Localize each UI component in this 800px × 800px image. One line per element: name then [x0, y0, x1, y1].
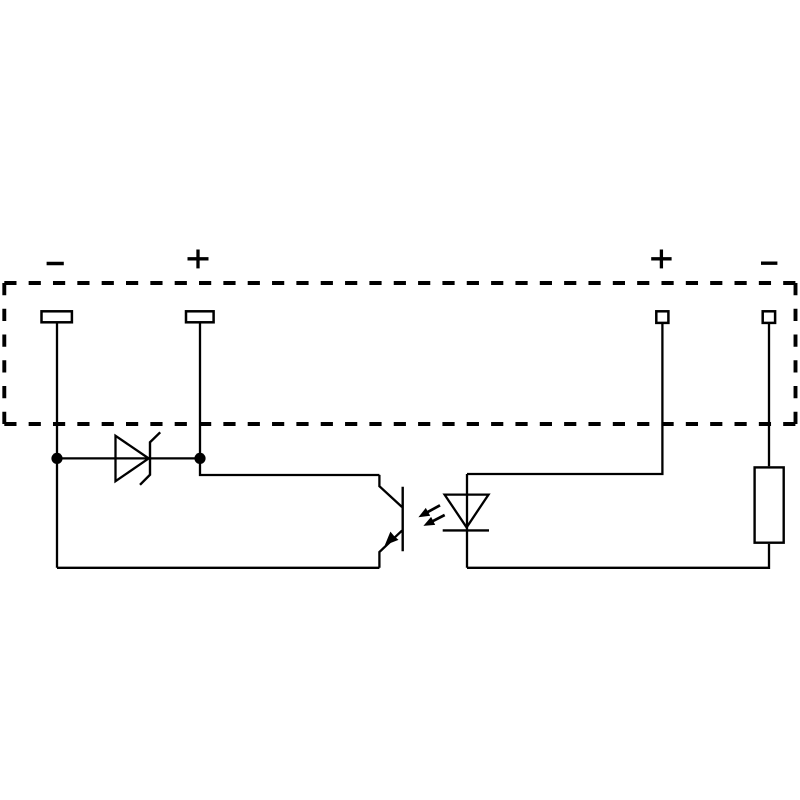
phototransistor Q1 base bar [402, 487, 404, 552]
terminal 2 (left plus, wide clamp) [186, 311, 214, 322]
wire: node A to node B through zener [57, 457, 200, 459]
relay module dashed outline right edge [794, 283, 798, 424]
light arrow 1 shaft [427, 505, 441, 512]
light arrow 2 head [423, 517, 435, 526]
zener diode D1 cathode bar with bends [140, 432, 160, 485]
resistor R1 [755, 467, 784, 542]
LED D2 cathode bar [443, 529, 489, 531]
light arrow 1 head [418, 508, 430, 517]
LED D2 triangle [445, 495, 489, 528]
relay module dashed outline left edge [2, 283, 6, 424]
plus label (right output) [651, 250, 671, 269]
wire: terminal2 down to node B [199, 322, 201, 458]
terminal 1 (left minus, wide clamp) [42, 311, 72, 322]
terminal 3 (right plus, small square) [656, 311, 668, 323]
node B (junction dot) [194, 453, 205, 464]
terminal 4 (right minus, small square) [763, 311, 775, 323]
minus label (left input) [47, 262, 64, 265]
wire: terminal1 down to bottom rail [56, 322, 58, 568]
phototransistor Q1 emitter arrowhead [385, 532, 399, 546]
relay module dashed outline top edge [4, 281, 795, 285]
minus label (right output) [761, 262, 777, 265]
relay module dashed outline bottom edge [4, 422, 795, 426]
phototransistor Q1 emitter lead [379, 531, 402, 568]
wire: terminal4 down to resistor [768, 323, 770, 466]
wire: LED vertical through symbol [466, 474, 468, 568]
phototransistor Q1 collector lead [379, 475, 402, 507]
wire: resistor bottom to LED cathode rail [467, 544, 769, 568]
wire: bottom rail left (emitter return) [57, 567, 379, 569]
wire: node B to phototransistor collector [200, 458, 379, 475]
plus label (left input) [188, 250, 209, 269]
zener diode D1 triangle [116, 436, 149, 481]
wire: terminal3 down and left to LED anode [467, 323, 662, 474]
node A (junction dot) [51, 453, 62, 464]
light arrow 2 shaft [432, 515, 445, 522]
